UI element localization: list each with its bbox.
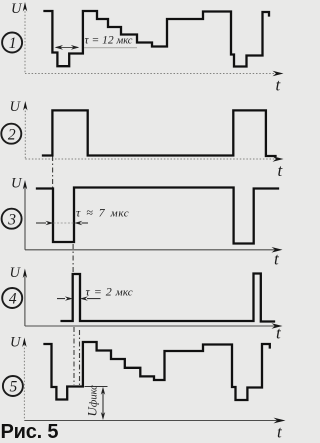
- svg-text:τ = 12 мкс: τ = 12 мкс: [85, 35, 133, 47]
- svg-text:U: U: [10, 334, 22, 350]
- svg-text:τ = 2 мкс: τ = 2 мкс: [86, 285, 133, 299]
- svg-text:4: 4: [9, 291, 17, 308]
- svg-text:Рис. 5: Рис. 5: [1, 421, 59, 443]
- svg-text:1: 1: [9, 35, 17, 52]
- svg-text:U: U: [11, 175, 23, 191]
- svg-text:3: 3: [7, 211, 16, 228]
- svg-text:2: 2: [8, 126, 16, 143]
- svg-text:5: 5: [10, 379, 18, 396]
- svg-text:U: U: [10, 99, 22, 115]
- svg-text:τ ≈ 7 мкс: τ ≈ 7 мкс: [76, 206, 129, 220]
- svg-text:U: U: [10, 265, 22, 281]
- svg-text:U: U: [11, 1, 23, 17]
